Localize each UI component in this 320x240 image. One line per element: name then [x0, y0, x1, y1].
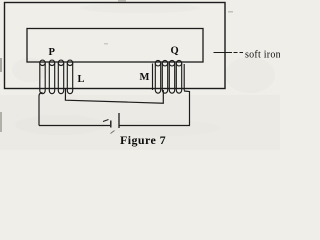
coil Q (right coil, 4 turns on bottom limb) [153, 61, 185, 94]
caption Figure 7 [120, 133, 166, 147]
label M [140, 72, 150, 83]
soft iron core outer rectangle [5, 3, 226, 89]
paper background [0, 0, 280, 150]
wire: bottom right horizontal from battery [119, 125, 190, 127]
svg-text:soft iron: soft iron [245, 50, 280, 61]
label soft iron [245, 50, 281, 61]
label Q [171, 46, 179, 57]
polarity tick above battery [103, 120, 109, 122]
wire: coil P left end down to battery line [39, 93, 43, 126]
soft iron core inner rectangle (core window) [27, 29, 203, 63]
svg-text:Q: Q [171, 46, 179, 57]
stray pen mark near battery [111, 131, 115, 134]
wire: series link coil P right end to coil Q left end [65, 89, 163, 104]
battery cell: short plate (negative) [110, 121, 112, 128]
wire: right vertical up to coil Q right end [184, 91, 190, 126]
coil P (left coil, 4 turns on bottom limb) [40, 60, 73, 94]
wire: bottom left horizontal to battery [39, 125, 110, 127]
battery cell: long plate (positive) [118, 113, 120, 128]
svg-text:Figure 7: Figure 7 [120, 133, 166, 147]
label P [49, 47, 56, 58]
svg-text:M: M [140, 72, 150, 83]
label L [78, 74, 85, 85]
leader line to soft iron label [214, 52, 244, 54]
svg-text:L: L [78, 74, 85, 85]
svg-text:P: P [49, 47, 56, 58]
